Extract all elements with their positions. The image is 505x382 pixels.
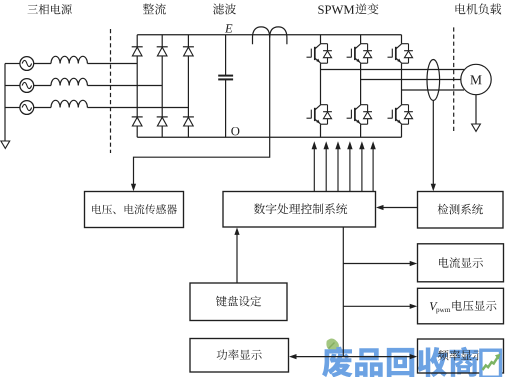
separator: dashed boundary source/rectifier (110, 29, 112, 153)
wire: left ground bus (4, 64, 6, 142)
watermark: chart logo square (481, 350, 501, 377)
IGBT Q3 (upper, leg 3) with freewheel diode (402, 43, 409, 45)
inductor L3 (line reactor, phase 3) (51, 100, 87, 107)
block: 电压、电流传感器 voltage/current sensor (85, 192, 184, 228)
IGBT Q1 (upper, leg 1) with freewheel diode (321, 43, 328, 45)
wire: rectifier leg 1 (136, 35, 138, 137)
wire: gate drive signal 3 (337, 146, 339, 191)
block: 数字处理控制系统 digital control system (223, 192, 376, 228)
wire: source V2 to inductor (33, 85, 51, 87)
wire: inverter phase output W to motor (402, 89, 465, 91)
wire: gate drive signal 4 (349, 146, 351, 191)
IGBT Q6 (lower, leg 3) with freewheel diode (402, 104, 409, 106)
block: 频率显示 frequency display (418, 339, 504, 373)
wire: inverter leg 1 verticals (320, 35, 322, 137)
wire: DC-link tap to voltage/current sensor (134, 40, 270, 186)
label: node O (231, 127, 239, 135)
node E: DC bus positive rail (137, 34, 401, 36)
wire: phase 2 inductor to rectifier leg (87, 85, 162, 87)
IGBT Q2 (upper, leg 2) with freewheel diode (361, 43, 368, 45)
block: 检测系统 detection system (418, 192, 504, 229)
wire: inverter phase output U to motor (321, 69, 465, 71)
current transformer CT (output current sensor) (427, 60, 440, 101)
diode D6 (lower, leg 3) (183, 116, 194, 118)
label: 滤波 (filter section) (213, 4, 236, 15)
block: 键盘设定 keypad setting (190, 283, 287, 321)
wire: CT secondary to detection system (432, 101, 434, 186)
ac source V1 (20, 57, 34, 71)
diode D2 (upper, leg 2) (157, 46, 168, 48)
diode D1 (upper, leg 1) (132, 46, 143, 48)
wire: motor to ground (475, 95, 477, 124)
inductor L1 (line reactor, phase 1) (51, 56, 87, 63)
IGBT Q5 (lower, leg 2) with freewheel diode (361, 104, 368, 106)
wire: phase 1 from bus to source (5, 63, 20, 65)
wire: rectifier leg 2 (161, 35, 163, 137)
label: 电机负载 (motor load section) (456, 3, 502, 14)
wire: branch to Vpwm voltage display (343, 305, 411, 307)
wire: inverter leg 3 verticals (401, 35, 403, 137)
inductor L4 (DC-link choke) (253, 27, 270, 44)
node O: DC bus negative rail (137, 136, 401, 138)
ac source V3 (20, 101, 34, 115)
motor M (461, 64, 491, 94)
wire: gate drive signal 2 (325, 146, 327, 191)
label: SPWM逆变 (SPWM inverter section) (318, 6, 354, 15)
watermark: site name text (322, 347, 478, 378)
diode D4 (lower, leg 1) (132, 116, 143, 118)
capacitor C1 (DC-link filter) (225, 35, 227, 137)
wire: phase 3 inductor to rectifier leg (87, 107, 188, 109)
wire: source V1 to inductor (33, 63, 51, 65)
wire: phase 1 inductor to rectifier leg (87, 63, 137, 65)
diode D3 (upper, leg 3) (183, 46, 194, 48)
label: 整流 (rectifier section) (143, 3, 166, 14)
wire: inverter phase output V to motor (361, 79, 461, 81)
wire: phase 3 from bus to source (5, 107, 20, 109)
wire: branch to current display (343, 263, 411, 265)
wire: phase 2 from bus to source (5, 85, 20, 87)
block: Vpwm电压显示 voltage display (418, 288, 504, 324)
wire: rectifier leg 3 (187, 35, 189, 137)
wire: inverter leg 2 verticals (360, 35, 362, 137)
wire: control system display bus (vertical) (342, 227, 344, 357)
block: 功率显示 power display (190, 339, 289, 373)
wire: gate drive signal 5 (361, 146, 363, 191)
wire: source V3 to inductor (33, 107, 51, 109)
label: node E (225, 24, 233, 32)
block: 电流显示 current display (418, 244, 504, 282)
diode D5 (lower, leg 2) (157, 116, 168, 118)
ground: source neutral ground arrow (1, 141, 10, 148)
wire: detection system to control system (382, 207, 418, 209)
watermark: recycling site leaf icon (326, 338, 339, 350)
ac source V2 (20, 79, 34, 93)
IGBT Q4 (lower, leg 1) with freewheel diode (321, 104, 328, 106)
label: 三相电源 (three-phase source section) (28, 4, 72, 14)
wire: keypad setting to control system (236, 233, 238, 283)
separator: dashed boundary inverter/motor (453, 27, 455, 131)
wire: branch to power display and frequency display (295, 356, 412, 358)
wire: gate drive signal 1 (313, 146, 315, 191)
wire: gate drive signal 6 (372, 146, 374, 191)
ground: motor frame ground arrow (472, 124, 481, 131)
inductor L2 (line reactor, phase 2) (51, 78, 87, 85)
